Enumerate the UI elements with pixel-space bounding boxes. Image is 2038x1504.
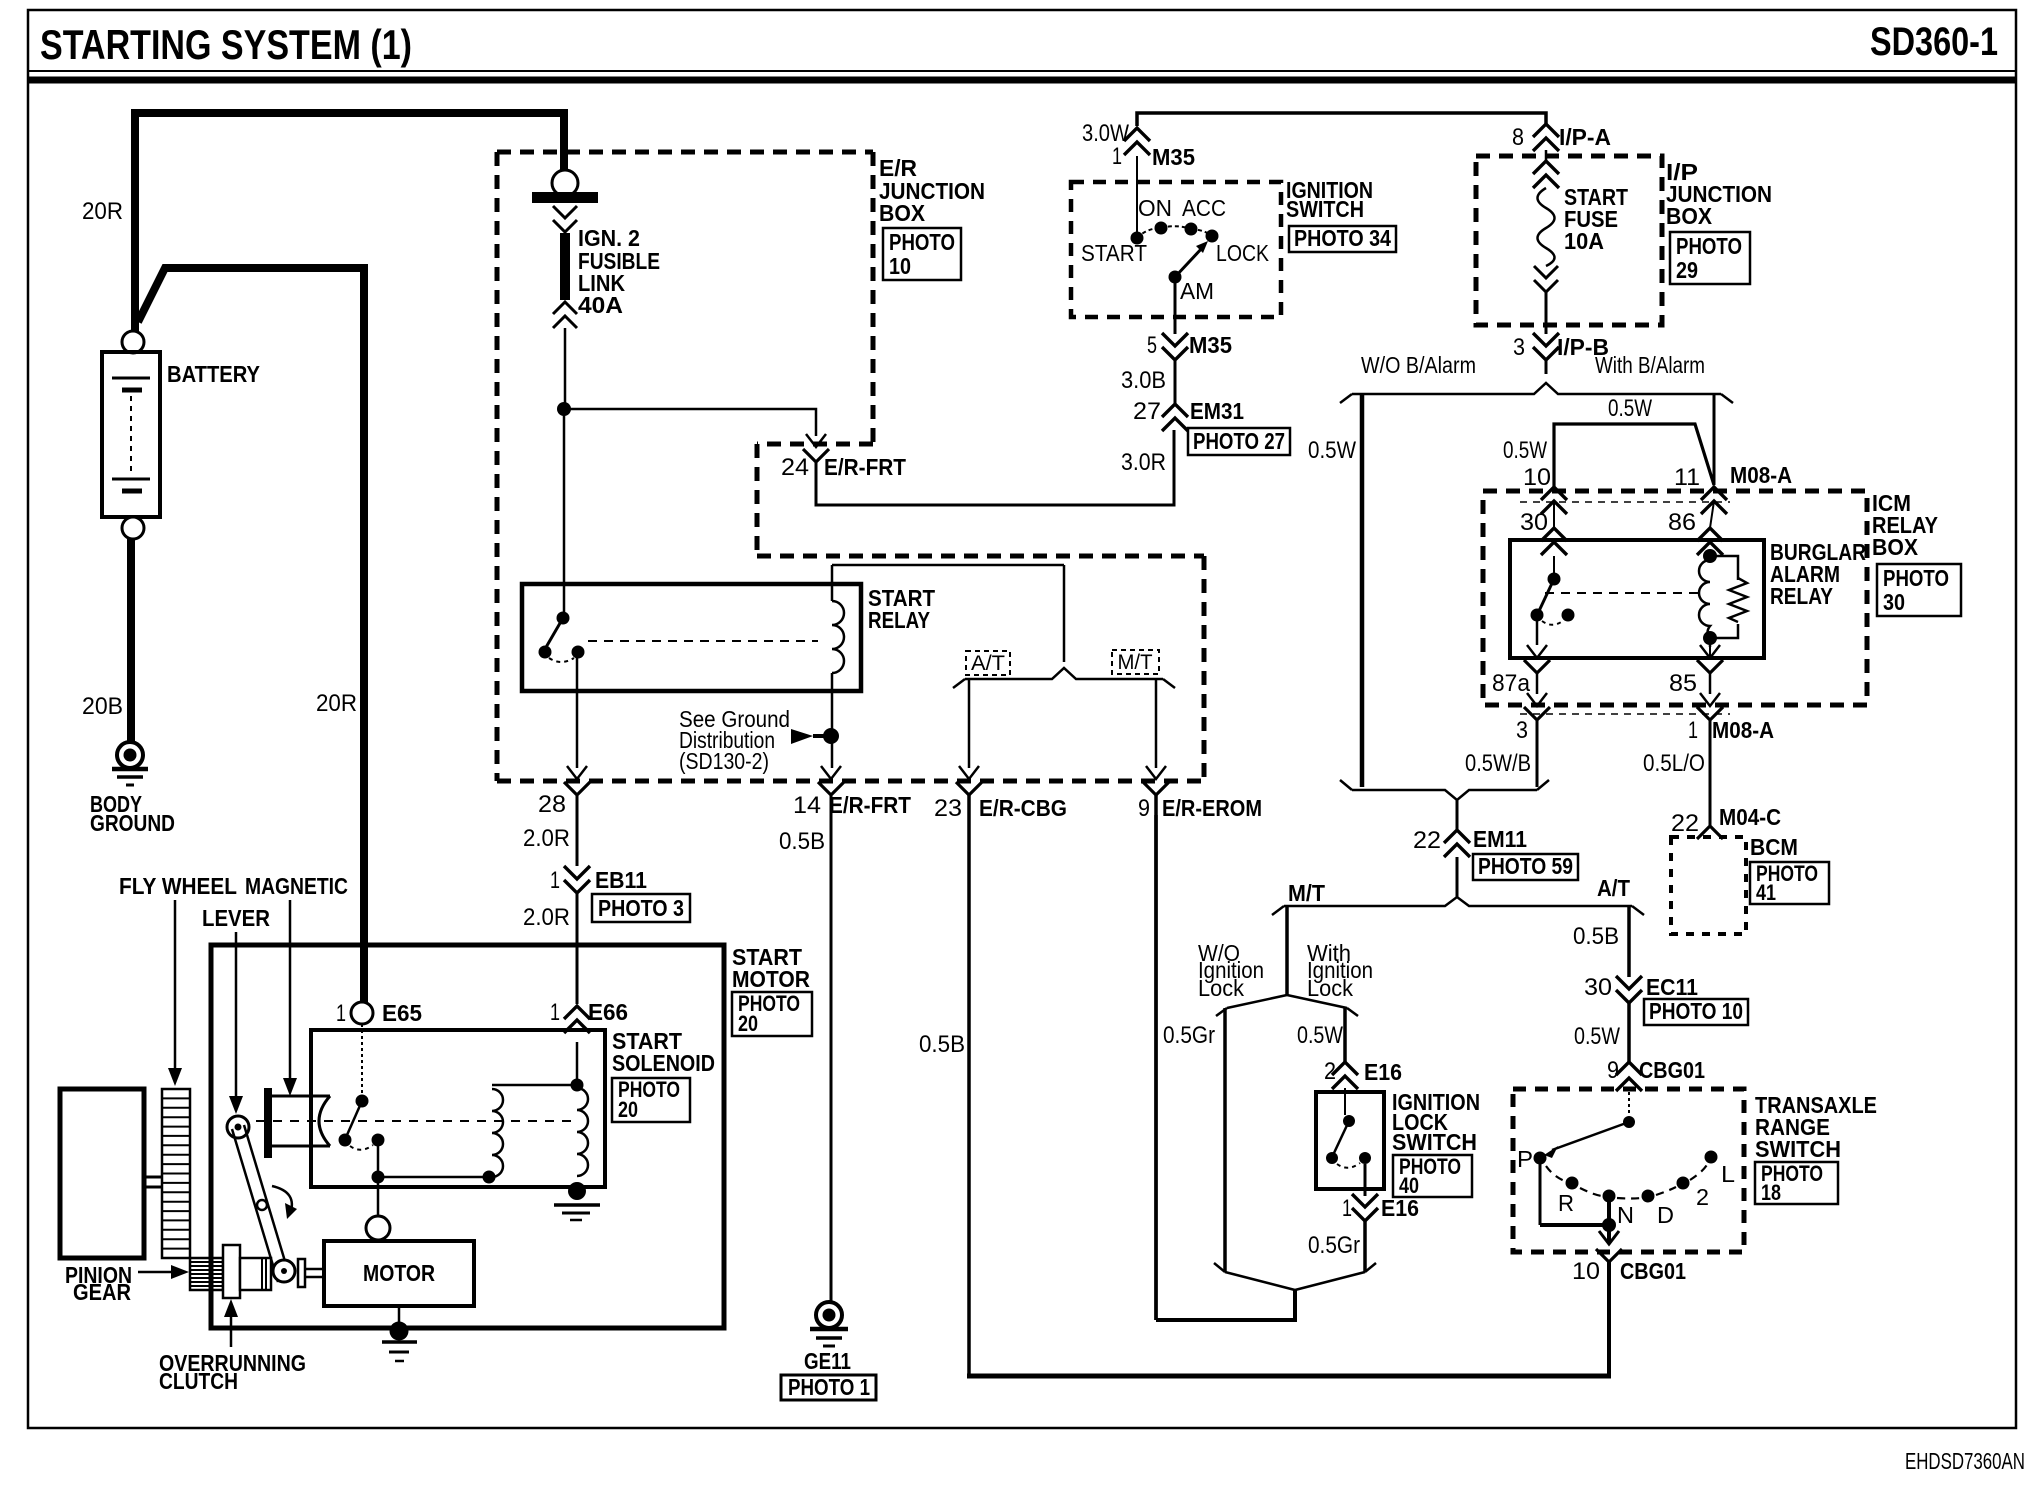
svg-text:FLY WHEEL: FLY WHEEL — [119, 873, 237, 899]
wire 0.5B A/T branch to EC11 — [1573, 906, 1629, 977]
svg-text:RELAY: RELAY — [1770, 583, 1833, 609]
label BURGLAR ALARM RELAY — [1770, 539, 1866, 609]
label box PHOTO 27 — [1188, 428, 1290, 455]
connector I/P-B pin 3 — [1513, 333, 1609, 361]
wire 0.5W with-lock branch to E16 — [1297, 1008, 1345, 1062]
battery BATTERY — [102, 331, 260, 539]
wire 20B battery to body ground — [127, 539, 135, 743]
solenoid switch contacts — [339, 1024, 385, 1184]
connector M08-A pin 11 — [1674, 462, 1792, 514]
svg-text:10: 10 — [1523, 464, 1551, 491]
svg-text:22: 22 — [1671, 810, 1699, 837]
svg-text:GROUND: GROUND — [90, 810, 175, 836]
connector E/R-FRT pin 14 — [793, 766, 911, 819]
svg-text:I/P-A: I/P-A — [1559, 124, 1611, 150]
svg-text:1: 1 — [336, 1000, 346, 1027]
page number SD360-1 — [1870, 20, 1998, 64]
connector EC11 pin 30 — [1584, 974, 1698, 1003]
lever arm — [227, 1116, 295, 1282]
connector EM11 pin 22 — [1413, 826, 1527, 857]
svg-text:A/T: A/T — [1597, 875, 1630, 901]
connector E16 pin 2 — [1324, 1058, 1402, 1089]
svg-text:D: D — [1657, 1202, 1674, 1228]
connector E/R-EROM pin 9 — [1138, 766, 1262, 822]
transaxle switch contacts P R N D 2 L — [1517, 1146, 1735, 1228]
label box PHOTO 59 — [1473, 853, 1578, 880]
svg-text:CLUTCH: CLUTCH — [159, 1368, 238, 1394]
svg-text:PHOTO: PHOTO — [1676, 233, 1742, 259]
svg-text:20R: 20R — [82, 198, 123, 225]
svg-text:30: 30 — [1520, 509, 1548, 536]
transaxle range switch dashed box — [1513, 1089, 1744, 1252]
connector I/P-A pin 8 — [1512, 124, 1611, 151]
magnetic pointer arrow — [283, 900, 297, 1096]
label box PHOTO 3 — [592, 894, 690, 922]
svg-text:ON: ON — [1138, 195, 1172, 221]
connector relay pin 86 — [1668, 501, 1723, 555]
svg-text:PHOTO: PHOTO — [889, 229, 955, 255]
wire 0.5W/B pin3 to EM11 bracket — [1465, 720, 1537, 787]
svg-text:M08-A: M08-A — [1712, 717, 1774, 743]
connector M08-A pin 3 — [1516, 673, 1550, 744]
label IGNITION SWITCH — [1286, 177, 1373, 222]
wire ignition lock switch output — [1364, 1164, 1367, 1196]
connector E65 pin 1 — [336, 1000, 422, 1027]
svg-text:11: 11 — [1674, 464, 1700, 491]
svg-text:BATTERY: BATTERY — [167, 361, 260, 387]
svg-text:M/T: M/T — [1118, 651, 1153, 674]
label IGNITION LOCK SWITCH — [1392, 1089, 1480, 1155]
label ICM RELAY BOX — [1872, 490, 1938, 560]
svg-text:9: 9 — [1607, 1057, 1619, 1084]
label TRANSAXLE RANGE SWITCH — [1755, 1092, 1877, 1162]
svg-text:1: 1 — [550, 867, 560, 894]
svg-text:(SD130-2): (SD130-2) — [679, 748, 769, 774]
label PINION GEAR — [65, 1262, 132, 1305]
svg-text:EM11: EM11 — [1473, 826, 1527, 852]
svg-text:E16: E16 — [1381, 1195, 1419, 1221]
svg-text:0.5B: 0.5B — [1573, 923, 1619, 950]
svg-text:SWITCH: SWITCH — [1755, 1136, 1841, 1162]
svg-text:3.0R: 3.0R — [1121, 449, 1166, 476]
svg-text:1: 1 — [1688, 717, 1698, 744]
junction node see-ground tap — [823, 728, 839, 744]
ICM relay box dashed outline — [1483, 491, 1867, 705]
svg-text:3.0W: 3.0W — [1082, 120, 1129, 147]
connector M08-A pin 10 — [1523, 464, 1567, 514]
svg-text:20B: 20B — [82, 693, 123, 720]
svg-text:MOTOR: MOTOR — [363, 1260, 435, 1286]
svg-text:E/R-FRT: E/R-FRT — [824, 454, 906, 480]
svg-text:0.5W: 0.5W — [1308, 437, 1356, 464]
ground GE11 — [804, 1302, 851, 1374]
wire EM11 to M/T A/T split — [1456, 857, 1459, 897]
svg-text:SWITCH: SWITCH — [1286, 196, 1364, 222]
document code EHDSD7360AN — [1905, 1448, 2025, 1474]
svg-text:PHOTO 1: PHOTO 1 — [788, 1374, 870, 1400]
wire With B/Alarm down to M08-A 11 — [1608, 394, 1714, 485]
wire start relay switch output to pin 28 — [576, 658, 579, 768]
solenoid ground — [554, 1182, 600, 1220]
wire 0.5B pin14 to GE11 — [779, 795, 831, 1303]
svg-text:BOX: BOX — [1872, 534, 1919, 560]
svg-text:20: 20 — [738, 1011, 758, 1036]
svg-text:BOX: BOX — [879, 200, 926, 226]
start motor outer box — [211, 945, 724, 1328]
svg-text:W/O B/Alarm: W/O B/Alarm — [1361, 352, 1476, 378]
fly wheel to gear links — [144, 1177, 162, 1187]
wire 3.0R from EM31 to E/R-FRT 24 — [816, 430, 1174, 505]
label 3.0R — [1121, 449, 1166, 476]
connector CBG01 pin 10 — [1572, 1225, 1686, 1285]
svg-text:87a: 87a — [1492, 670, 1531, 697]
svg-text:E/R-FRT: E/R-FRT — [829, 792, 911, 818]
label 20R right — [316, 690, 357, 717]
svg-text:0.5W: 0.5W — [1608, 395, 1652, 422]
connector M35 pin 5 — [1147, 332, 1232, 360]
label START MOTOR — [732, 944, 810, 992]
label box PHOTO 34 — [1289, 225, 1396, 252]
svg-text:SWITCH: SWITCH — [1392, 1129, 1477, 1155]
wire U-link EROM to lock merge — [1154, 815, 1158, 1320]
label A/T — [1597, 875, 1630, 901]
svg-text:10A: 10A — [1564, 228, 1604, 254]
label box PHOTO 41 — [1750, 861, 1829, 905]
label LEVER — [202, 905, 270, 931]
svg-text:PHOTO 59: PHOTO 59 — [1478, 853, 1573, 879]
start fuse 10A — [1533, 150, 1628, 292]
start relay box — [522, 584, 861, 691]
connector M35 pin 1 — [1112, 128, 1195, 170]
svg-text:24: 24 — [781, 454, 809, 481]
connector EM31 pin 27 — [1133, 398, 1244, 431]
connector M04-C pin 22 — [1671, 804, 1781, 839]
svg-text:M04-C: M04-C — [1719, 804, 1781, 830]
label box PHOTO 20 (start motor) — [732, 991, 812, 1036]
ignition switch dashed box — [1071, 182, 1281, 317]
ignition lock switch box — [1316, 1092, 1384, 1189]
label I/P JUNCTION BOX — [1666, 159, 1772, 229]
M/T tag dashed box — [1112, 650, 1159, 674]
svg-text:PHOTO 3: PHOTO 3 — [598, 895, 684, 921]
fly wheel — [60, 1089, 144, 1258]
I/P junction box dashed outline — [1476, 156, 1662, 325]
wire 2.0R EB11 to E66 — [523, 893, 577, 1004]
label E/R JUNCTION BOX — [879, 155, 985, 226]
transaxle switch selector — [1544, 1092, 1635, 1158]
svg-text:10: 10 — [1572, 1258, 1600, 1285]
merge bracket ignition lock branches — [1214, 1263, 1376, 1322]
svg-text:R: R — [1558, 1190, 1574, 1216]
svg-text:3: 3 — [1513, 334, 1525, 361]
svg-text:2.0R: 2.0R — [523, 825, 570, 852]
svg-text:EB11: EB11 — [595, 867, 647, 893]
svg-text:14: 14 — [793, 792, 821, 819]
burglar alarm relay box — [1510, 540, 1764, 658]
svg-text:E/R-EROM: E/R-EROM — [1162, 795, 1262, 821]
svg-text:RELAY: RELAY — [868, 607, 930, 633]
svg-text:86: 86 — [1668, 509, 1696, 536]
transaxle switch P to output wire — [1540, 1164, 1616, 1232]
svg-text:AM: AM — [1180, 278, 1214, 304]
lever rotation arrow — [272, 1186, 297, 1219]
label W/O B/Alarm — [1361, 352, 1476, 378]
svg-text:30: 30 — [1883, 589, 1905, 615]
label box PHOTO 10 (EC11) — [1644, 998, 1748, 1025]
wire A/T branch down to E/R-CBG 23 — [968, 679, 971, 768]
solenoid dashed centerline — [256, 1120, 577, 1122]
M08-A connector dashed line top — [1520, 501, 1730, 503]
junction node fusible link / E-R-FRT branch — [557, 402, 571, 416]
fusible link IGN.2 40A — [532, 170, 660, 328]
svg-text:PHOTO 10: PHOTO 10 — [1649, 998, 1743, 1024]
wire start fuse to I/P-B — [1545, 292, 1548, 334]
start relay internal dashed link — [588, 640, 818, 642]
svg-text:MAGNETIC: MAGNETIC — [245, 873, 348, 899]
connector E/R-CBG pin 23 — [934, 766, 1067, 822]
branch split W/O-With ignition lock — [1216, 995, 1358, 1016]
svg-text:L: L — [1721, 1161, 1735, 1187]
wire 0.5Gr W/O lock branch — [1163, 1008, 1225, 1272]
svg-text:85: 85 — [1669, 670, 1697, 697]
branch bracket W/O-With B/Alarm — [1340, 383, 1733, 403]
svg-text:3: 3 — [1516, 717, 1528, 744]
label box PHOTO 30 — [1877, 564, 1961, 616]
svg-text:2: 2 — [1696, 1184, 1709, 1210]
label With B/Alarm — [1595, 352, 1705, 378]
A/T tag dashed box — [966, 651, 1010, 675]
title separator lines — [28, 71, 2016, 80]
wire fusible link down to start relay — [564, 328, 565, 618]
start solenoid box — [311, 1030, 605, 1187]
connector E/R-FRT pin 24 — [781, 434, 906, 481]
svg-text:30: 30 — [1584, 974, 1612, 1001]
svg-text:PHOTO: PHOTO — [1883, 565, 1949, 591]
wire merge to EM11 — [1456, 800, 1459, 830]
svg-text:0.5L/O: 0.5L/O — [1643, 750, 1705, 777]
solenoid hold-in coil — [571, 1042, 589, 1176]
svg-text:CBG01: CBG01 — [1639, 1057, 1705, 1083]
jumper 0.5W pin10 to pin11 — [1503, 424, 1714, 487]
svg-text:28: 28 — [538, 791, 566, 818]
svg-text:GE11: GE11 — [804, 1348, 851, 1374]
svg-text:9: 9 — [1138, 795, 1150, 822]
label FLY WHEEL MAGNETIC — [119, 873, 348, 899]
title STARTING SYSTEM (1) — [40, 21, 412, 68]
ignition switch contacts — [1081, 156, 1270, 266]
svg-text:LEVER: LEVER — [202, 905, 270, 931]
label M/T — [1288, 880, 1325, 906]
burglar alarm relay coil and resistor — [1699, 549, 1747, 647]
label box PHOTO 18 — [1755, 1161, 1838, 1205]
burglar alarm relay internal dashed line — [1545, 592, 1700, 594]
svg-text:M08-A: M08-A — [1730, 462, 1792, 488]
pinion pointer arrow — [138, 1265, 189, 1279]
svg-text:SD360-1: SD360-1 — [1870, 20, 1998, 64]
svg-text:EHDSD7360AN: EHDSD7360AN — [1905, 1448, 2025, 1474]
svg-text:41: 41 — [1756, 880, 1776, 905]
svg-text:With B/Alarm: With B/Alarm — [1595, 352, 1705, 378]
connector M08-A pin 1 — [1688, 673, 1774, 744]
wire start relay coil to E/R-FRT 14 — [831, 673, 834, 768]
label 20R — [82, 198, 123, 225]
svg-text:LOCK: LOCK — [1216, 240, 1270, 266]
label 20B — [82, 693, 123, 720]
motor ground — [382, 1306, 417, 1361]
connector CBG01 pin 9 — [1607, 1057, 1705, 1091]
svg-text:23: 23 — [934, 795, 962, 822]
svg-text:27: 27 — [1133, 398, 1161, 425]
svg-text:22: 22 — [1413, 827, 1441, 854]
svg-text:A/T: A/T — [971, 652, 1005, 675]
wire 0.5B E/R-CBG down and across to CBG01 10 — [919, 795, 1611, 1376]
svg-text:PHOTO 27: PHOTO 27 — [1193, 428, 1285, 454]
BCM dashed box — [1671, 837, 1746, 934]
overrunning clutch — [223, 1245, 324, 1298]
connector E16 pin 1 — [1342, 1194, 1419, 1222]
svg-text:BCM: BCM — [1750, 834, 1798, 860]
svg-text:29: 29 — [1676, 257, 1698, 283]
svg-text:START: START — [1081, 240, 1147, 266]
svg-text:M35: M35 — [1189, 332, 1232, 358]
wire 3.0W ignition switch to I/P-A (top) — [1137, 113, 1546, 126]
label box PHOTO 10 (E/R) — [883, 228, 961, 280]
fly wheel pointer arrow — [168, 900, 182, 1086]
svg-text:STARTING SYSTEM (1): STARTING SYSTEM (1) — [40, 21, 412, 68]
label box PHOTO 1 (GE11) — [781, 1374, 876, 1400]
svg-text:E/R-CBG: E/R-CBG — [979, 795, 1067, 821]
ignition lock switch contacts — [1326, 1088, 1371, 1168]
label 3.0W — [1082, 120, 1129, 147]
ring gear strip — [162, 1089, 190, 1258]
label OVERRUNNING CLUTCH — [159, 1350, 306, 1394]
svg-text:0.5W: 0.5W — [1297, 1022, 1343, 1049]
svg-text:Lock: Lock — [1198, 975, 1244, 1001]
connector pin 28 (E/R box) — [538, 766, 590, 818]
svg-text:2.0R: 2.0R — [523, 904, 570, 931]
solenoid plunger core — [264, 1088, 330, 1158]
wire 0.5Gr E16-1 down — [1308, 1221, 1365, 1272]
svg-text:EM31: EM31 — [1190, 398, 1244, 424]
wire M/T branch down — [1285, 906, 1289, 995]
connector E66 pin 1 — [550, 999, 628, 1033]
wire M/T branch down to E/R-EROM 9 — [1155, 679, 1158, 768]
branch bracket M/T A/T — [1272, 897, 1644, 915]
label START RELAY — [868, 585, 935, 633]
svg-text:N: N — [1617, 1202, 1634, 1228]
wire branch to E/R-FRT 24 — [564, 409, 816, 436]
label box PHOTO 40 — [1393, 1154, 1472, 1198]
svg-text:EC11: EC11 — [1646, 974, 1698, 1000]
svg-text:PHOTO 34: PHOTO 34 — [1294, 225, 1391, 251]
svg-text:1: 1 — [1112, 143, 1122, 170]
label START SOLENOID — [612, 1028, 715, 1076]
label With Ignition Lock — [1307, 940, 1373, 1001]
svg-text:M/T: M/T — [1288, 880, 1325, 906]
svg-text:10: 10 — [889, 253, 911, 279]
svg-text:0.5W: 0.5W — [1574, 1023, 1620, 1050]
svg-text:E66: E66 — [588, 999, 628, 1025]
svg-text:20R: 20R — [316, 690, 357, 717]
svg-text:MOTOR: MOTOR — [732, 966, 810, 992]
svg-text:GEAR: GEAR — [73, 1279, 131, 1305]
label box PHOTO 20 (solenoid) — [612, 1077, 690, 1122]
connector EB11 pin 1 — [550, 866, 647, 894]
label W/O Ignition Lock — [1198, 940, 1264, 1001]
svg-text:E65: E65 — [382, 1000, 422, 1026]
svg-text:0.5W: 0.5W — [1503, 437, 1547, 464]
svg-text:0.5Gr: 0.5Gr — [1308, 1232, 1360, 1259]
wire solenoid switch to motor — [377, 1177, 380, 1216]
svg-text:ACC: ACC — [1182, 195, 1226, 221]
wire CBG01 10 down to bottom run — [1607, 1262, 1611, 1374]
wire I/P-B to alarm split — [1545, 360, 1548, 374]
connector relay pin 85 — [1669, 645, 1723, 697]
svg-text:CBG01: CBG01 — [1620, 1258, 1686, 1284]
start relay switch — [539, 612, 585, 663]
burglar alarm relay switch — [1531, 556, 1575, 645]
wire 0.5L/O pin1 to M04-C — [1643, 720, 1710, 826]
svg-text:40A: 40A — [578, 292, 623, 318]
merge bracket to EM11 — [1340, 780, 1549, 800]
svg-text:1: 1 — [550, 999, 560, 1026]
label BCM — [1750, 834, 1798, 860]
svg-text:5: 5 — [1147, 332, 1157, 359]
wire 20R battery to fusible link (thick top) — [135, 113, 564, 331]
svg-text:BOX: BOX — [1666, 203, 1713, 229]
ignition switch blade AM to LOCK — [1169, 241, 1215, 304]
svg-text:E16: E16 — [1364, 1059, 1402, 1085]
lever pointer arrow — [229, 932, 243, 1114]
overrunning clutch pointer arrow — [224, 1299, 238, 1347]
wire 0.5W W/O B/Alarm down to EM11 bracket (thick) — [1308, 394, 1362, 787]
connector relay pin 87a — [1492, 645, 1550, 697]
svg-text:SOLENOID: SOLENOID — [612, 1050, 715, 1076]
solenoid pull-in coil — [378, 1085, 577, 1184]
svg-text:P: P — [1517, 1146, 1533, 1172]
svg-text:0.5B: 0.5B — [779, 828, 825, 855]
wire 3.0B M35 to EM31 — [1121, 360, 1175, 404]
label box PHOTO 29 — [1670, 232, 1750, 284]
motor MOTOR — [324, 1216, 474, 1306]
svg-text:0.5W/B: 0.5W/B — [1465, 750, 1531, 777]
body ground — [90, 742, 175, 836]
wire AM out of ignition switch — [1174, 277, 1177, 334]
svg-text:18: 18 — [1761, 1180, 1781, 1205]
svg-text:Lock: Lock — [1307, 975, 1353, 1001]
connector relay pin 30 — [1520, 501, 1567, 555]
wire 2.0R pin28 to EB11 — [523, 795, 577, 866]
svg-text:8: 8 — [1512, 124, 1524, 151]
svg-text:20: 20 — [618, 1097, 638, 1122]
M08-A connector dashed line bottom — [1520, 713, 1730, 715]
svg-text:M35: M35 — [1152, 144, 1195, 170]
svg-text:0.5Gr: 0.5Gr — [1163, 1022, 1215, 1049]
pinion gear — [190, 1258, 223, 1290]
see ground distribution note — [679, 706, 824, 774]
start relay coil — [832, 565, 1064, 673]
E/R junction box dashed outline — [497, 152, 1204, 781]
svg-text:0.5B: 0.5B — [919, 1031, 965, 1058]
svg-text:1: 1 — [1342, 1195, 1352, 1222]
wire 0.5Gr E/R-EROM down to ignition-lock merge — [1156, 795, 1295, 1320]
svg-text:3.0B: 3.0B — [1121, 367, 1166, 394]
branch bracket A/T M/T — [953, 668, 1175, 688]
wire 20R battery to start motor E65 (thick) — [138, 264, 364, 1002]
wire 0.5W EC11 to CBG01 9 — [1574, 1003, 1629, 1062]
svg-text:2: 2 — [1324, 1058, 1336, 1085]
